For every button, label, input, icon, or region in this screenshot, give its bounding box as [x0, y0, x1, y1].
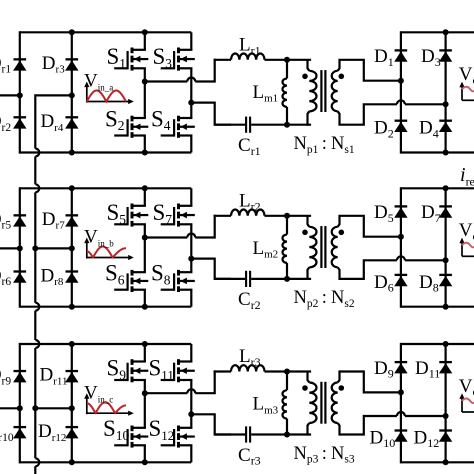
diode Dr2	[0, 111, 27, 134]
transistor S9	[107, 356, 149, 383]
transformer core row 2	[321, 226, 325, 268]
wire output left leg row 1	[400, 31, 402, 153]
wire tank bottom to primary row 3	[287, 433, 311, 435]
svg-text:Vo: Vo	[459, 376, 474, 399]
wire neutral link row 3 down	[34, 408, 36, 458]
wire secondary bottom row 3	[338, 412, 446, 435]
diode D1	[374, 46, 408, 69]
wire output top rail row 2	[401, 187, 474, 189]
wire input right leg row 1	[71, 31, 73, 153]
inductor Lm2	[253, 216, 288, 279]
capacitor Cr1	[215, 117, 287, 158]
transformer primary winding row 3	[302, 372, 316, 436]
wire input bottom rail row 3	[20, 461, 192, 463]
wire S-leg1 row 1	[144, 32, 146, 152]
wire input top rail row 1	[20, 31, 192, 33]
wire bridge out top row 1	[145, 59, 215, 82]
node input dots row 2	[17, 185, 148, 309]
node neutral row 3	[32, 405, 38, 411]
waveform Vin_a	[84, 71, 134, 105]
diode Dr7	[42, 209, 79, 232]
diode Dr3	[42, 53, 79, 76]
diode D4	[419, 118, 452, 141]
hop neutral over top rail row 3	[35, 340, 39, 348]
wire neutral link into row 3	[34, 348, 36, 408]
wire tank top to primary row 2	[287, 215, 311, 217]
transformer primary winding row 1	[302, 60, 316, 126]
diode Dr5	[0, 209, 27, 232]
wire secondary bottom row 2	[338, 256, 446, 279]
node tank dots row 3	[284, 369, 290, 438]
transistor S1	[107, 44, 149, 71]
wire bridge out bottom row 2	[191, 259, 231, 279]
wire input top rail row 2	[20, 187, 192, 189]
node bridge midpoints row 2	[142, 235, 195, 262]
transistor S3	[153, 44, 195, 71]
capacitor Cr2	[215, 271, 287, 312]
wire output top rail row 3	[401, 343, 474, 345]
wire output left leg row 3	[400, 343, 402, 464]
wire neutral link rows 1-2	[34, 157, 36, 185]
inductor Lm1	[253, 60, 288, 125]
label turns ratio Np1:Ns1	[294, 134, 355, 156]
transformer secondary winding row 2	[332, 227, 344, 267]
diode D3	[421, 46, 452, 69]
wire output right leg row 2	[445, 187, 447, 308]
svg-text:Vo: Vo	[459, 220, 474, 243]
wire S-leg2 row 1	[190, 32, 192, 152]
wire input top rail row 3	[20, 343, 192, 345]
wire phase c input	[0, 407, 20, 409]
diode D10	[370, 427, 408, 450]
wire output bottom rail row 1	[401, 151, 474, 153]
node bridge midpoints row 3	[142, 390, 195, 417]
label Vo row 1	[459, 64, 474, 100]
wire input bottom rail row 1	[20, 151, 192, 153]
diode Dr10	[0, 421, 27, 444]
wire neutral link rows 2-3	[34, 311, 36, 340]
node output dots row 3	[398, 341, 449, 465]
transistor S12	[149, 416, 195, 447]
wire phase b input	[0, 247, 20, 249]
transistor S7	[153, 200, 195, 227]
wire output bottom rail row 3	[401, 461, 474, 463]
node tank dots row 2	[284, 213, 290, 282]
node bridge midpoints row 1	[142, 79, 195, 106]
diode Dr4	[41, 111, 79, 134]
wire neutral node to Dr11/Dr12	[35, 407, 72, 409]
inductor Lr1	[214, 35, 287, 60]
wire tank bottom to primary row 1	[287, 124, 311, 126]
transformer secondary winding row 1	[332, 71, 344, 112]
wire bridge out bottom row 3	[191, 414, 231, 434]
hop neutral over bottom rail row 2	[35, 303, 39, 311]
wire bridge out bottom row 1	[191, 103, 231, 125]
inductor Lr2	[214, 191, 287, 216]
transistor S5	[107, 200, 149, 227]
wire secondary top row 2	[338, 216, 401, 237]
wire input left leg row 2	[19, 187, 21, 308]
wire S-leg1 row 3	[144, 344, 146, 462]
diode D9	[374, 358, 408, 381]
hop neutral over top rail row 2	[35, 184, 39, 192]
svg-text::: :	[322, 134, 327, 154]
wire S-leg2 row 3	[190, 344, 192, 462]
transistor S4	[151, 106, 195, 137]
wire input left leg row 3	[19, 343, 21, 464]
transformer core row 3	[321, 382, 325, 424]
node input dots row 1	[17, 29, 148, 155]
transistor S6	[105, 261, 148, 292]
node output dots row 1	[398, 29, 449, 155]
wire neutral tail	[34, 466, 36, 474]
diode D5	[374, 202, 408, 225]
diode Dr6	[0, 265, 27, 288]
label turns ratio Np2:Ns2	[294, 288, 355, 310]
node tank dots row 1	[284, 57, 290, 128]
waveform Vin_b	[84, 227, 134, 261]
node input dots row 3	[17, 341, 148, 465]
wire S-leg2 row 2	[190, 188, 192, 306]
node output dots row 2	[398, 185, 449, 309]
wire output right leg row 3	[445, 343, 447, 464]
wire output top rail row 1	[401, 31, 474, 33]
diode Dr12	[38, 421, 79, 444]
wire secondary top row 1	[338, 60, 401, 81]
inductor Lm3	[253, 372, 288, 435]
wire output bottom rail row 2	[401, 306, 474, 308]
svg-text::: :	[322, 444, 327, 464]
svg-text:Vo: Vo	[459, 64, 474, 87]
wire input left leg row 1	[19, 31, 21, 153]
diode D8	[419, 272, 452, 295]
diode Dr1	[0, 53, 27, 76]
node neutral row 2	[32, 245, 38, 251]
wire neutral node to Dr7/Dr8	[35, 247, 72, 249]
label Vo row 2	[459, 220, 474, 256]
wire S-leg1 row 2	[144, 188, 146, 306]
diode D2	[374, 118, 408, 141]
transformer core row 1	[321, 70, 325, 112]
wire output left leg row 2	[400, 187, 402, 308]
wire tank top to primary row 1	[287, 59, 311, 61]
wire neutral link into row 2	[34, 192, 36, 248]
wire input bottom rail row 2	[20, 306, 192, 308]
wire bridge out top row 2	[145, 215, 215, 238]
diode Dr8	[41, 265, 79, 288]
capacitor Cr3	[215, 426, 287, 467]
label Vo row 3	[459, 376, 474, 412]
label turns ratio Np3:Ns3	[294, 444, 355, 466]
wire input right leg row 3	[71, 343, 73, 464]
transistor S11	[149, 356, 195, 383]
transistor S8	[151, 261, 195, 292]
wire tank top to primary row 3	[287, 370, 311, 372]
inductor Lr3	[214, 346, 287, 371]
svg-text::: :	[322, 288, 327, 308]
wire output right leg row 1	[445, 31, 447, 153]
diode D11	[415, 358, 452, 381]
transformer secondary winding row 3	[332, 383, 344, 424]
hop neutral over bottom rail row 1	[35, 149, 39, 157]
transistor S2	[105, 106, 148, 137]
wire bridge out top row 3	[145, 370, 215, 393]
wire input right leg row 2	[71, 187, 73, 308]
wire tank bottom to primary row 2	[287, 278, 311, 280]
wire neutral link row 2 down	[34, 248, 36, 302]
wire secondary bottom row 1	[338, 100, 446, 124]
hop neutral over bottom rail row 3	[35, 458, 39, 466]
waveform Vin_c	[84, 382, 134, 416]
wire phase a input	[0, 94, 20, 96]
diode D7	[421, 202, 452, 225]
transistor S10	[103, 416, 148, 447]
diode Dr11	[40, 365, 79, 388]
wire neutral link row 1	[35, 95, 72, 148]
transformer primary winding row 2	[302, 216, 316, 280]
diode D6	[374, 272, 408, 295]
diode Dr9	[0, 365, 27, 388]
wire secondary top row 3	[338, 372, 401, 393]
diode D12	[414, 427, 453, 450]
